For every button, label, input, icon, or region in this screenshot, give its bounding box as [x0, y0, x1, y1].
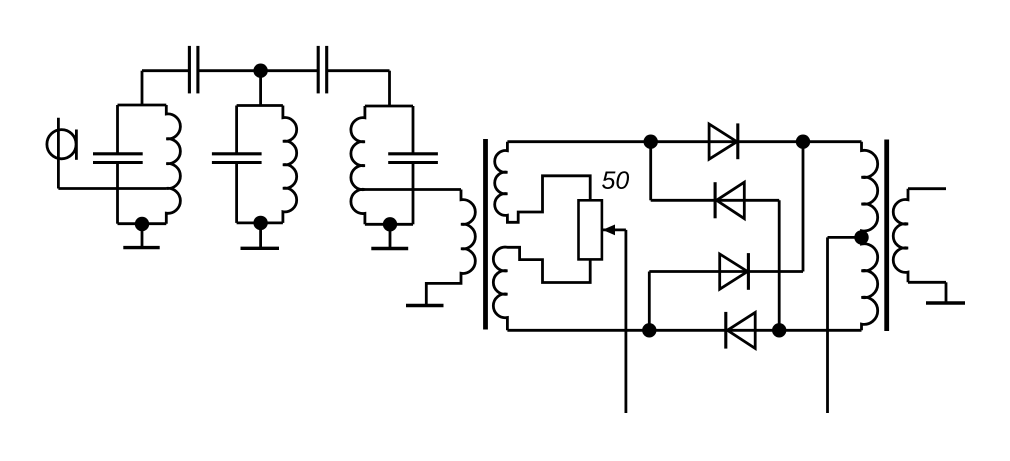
svg-text:50: 50	[602, 167, 630, 195]
